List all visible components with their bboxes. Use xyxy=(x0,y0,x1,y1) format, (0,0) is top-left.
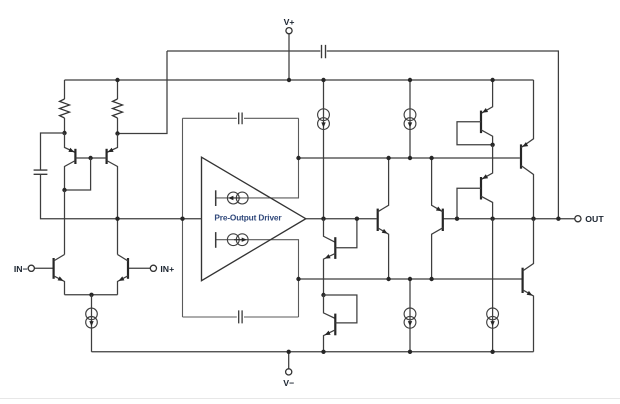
node Q5 base on rail xyxy=(355,217,359,221)
wire xyxy=(443,218,575,220)
svg-text:V+: V+ xyxy=(284,17,295,27)
wire xyxy=(65,294,118,296)
capacitor C2 xyxy=(239,113,242,125)
svg-text:V−: V− xyxy=(283,378,294,388)
node Q3 collector xyxy=(62,188,66,192)
wire xyxy=(65,158,91,190)
current source I1 xyxy=(91,295,93,352)
transistor Q4 xyxy=(107,134,118,153)
wire xyxy=(64,190,66,255)
transistor Q3 xyxy=(65,133,76,153)
wire xyxy=(299,278,522,280)
current source I2 xyxy=(215,190,217,206)
wire xyxy=(299,157,520,159)
transistor Q5 xyxy=(324,219,336,243)
svg-text:IN+: IN+ xyxy=(160,264,174,274)
resistor R2 xyxy=(117,80,119,99)
node mirror base xyxy=(88,156,92,160)
wire xyxy=(167,51,558,219)
wire xyxy=(65,79,534,81)
transistor Q10 xyxy=(481,80,493,113)
capacitor C1 xyxy=(41,133,65,170)
node tail xyxy=(89,293,93,297)
svg-text:IN−: IN− xyxy=(14,264,28,274)
transistor Q9 xyxy=(442,209,444,231)
node comp wire on OUT xyxy=(556,217,560,221)
wire xyxy=(118,51,168,134)
node Q8 emitter xyxy=(386,277,390,281)
node R2 top xyxy=(115,78,119,82)
node Q12 collector on OUT xyxy=(531,217,535,221)
current source I4 xyxy=(323,80,325,219)
resistor R1 xyxy=(64,80,66,99)
node R1 bottom xyxy=(62,131,66,135)
current source I7 xyxy=(492,219,494,352)
IN- terminal xyxy=(34,267,53,269)
V- terminal xyxy=(288,352,290,369)
node Q9 collector xyxy=(429,277,433,281)
node Q8 collector xyxy=(386,156,390,160)
wire xyxy=(306,218,377,220)
node Q11 collector on rail xyxy=(490,217,494,221)
capacitor C4 xyxy=(322,45,326,58)
transistor Q13 xyxy=(521,268,523,293)
wire xyxy=(0,398,620,400)
wire xyxy=(75,157,106,159)
node R2 bottom xyxy=(115,131,119,135)
svg-text:Pre-Output Driver: Pre-Output Driver xyxy=(214,212,282,222)
transistor Q8 xyxy=(377,209,379,231)
node Q10 collector xyxy=(490,143,494,147)
op-amp U1 triangle xyxy=(202,157,306,281)
transistor Q1 xyxy=(52,258,54,279)
node V+ rail junction xyxy=(287,78,291,82)
svg-text:OUT: OUT xyxy=(585,214,604,224)
transistor Q6 xyxy=(324,295,336,319)
wire xyxy=(41,174,202,218)
current source I5 xyxy=(409,80,411,158)
IN+ terminal xyxy=(128,267,150,269)
pre-output driver box U1 xyxy=(183,117,299,119)
node Q5 emitter to Q6 xyxy=(321,293,325,297)
node Q10 top xyxy=(490,78,494,82)
wire xyxy=(92,351,534,353)
node input wire at box edge xyxy=(180,217,184,221)
node Q11 base on rail xyxy=(455,217,459,221)
node lower rail at box xyxy=(296,277,300,281)
node Q9 emitter xyxy=(429,156,433,160)
node input wire junction Q4 collector xyxy=(115,217,119,221)
node Q6 emitter on V- rail xyxy=(321,350,325,354)
current source I3 xyxy=(215,232,217,248)
transistor Q12 xyxy=(520,144,522,168)
node V- rail junction xyxy=(287,350,291,354)
node signal rail I4 xyxy=(321,217,325,221)
node I4 top xyxy=(321,78,325,82)
node upper rail at box xyxy=(296,156,300,160)
capacitor C3 xyxy=(239,310,242,323)
transistor Q11 xyxy=(481,145,493,180)
OUT terminal xyxy=(575,216,581,222)
current source I6 xyxy=(409,279,411,352)
transistor Q2 xyxy=(127,258,129,279)
V+ terminal xyxy=(288,34,290,80)
